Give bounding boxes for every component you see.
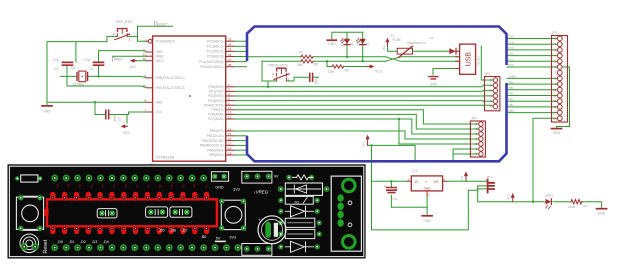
svg-text:27: 27 <box>228 58 232 62</box>
wire to IC2 VI <box>372 180 408 182</box>
svg-text:PD0(RXD): PD0(RXD) <box>208 85 223 89</box>
svg-text:LED1: LED1 <box>545 194 553 198</box>
svg-text:PB3: PB3 <box>509 92 515 96</box>
svg-text:GND: GND <box>215 186 224 190</box>
wire USB GND <box>433 69 460 75</box>
IC1 pin 19 PB5(SCK) <box>209 151 234 157</box>
wire JUMP net to JP3 pin 8 <box>507 77 557 79</box>
svg-text:RXLED: RXLED <box>356 37 360 46</box>
IC1 origin mark <box>189 95 191 97</box>
wire PD1 to JP1 pin 3 <box>234 90 493 93</box>
wire bus to JP3 pin 12 <box>507 100 557 102</box>
IC1 pin 17 PB3(MOSI/OC2) <box>200 142 234 148</box>
svg-text:1.5K: 1.5K <box>328 70 336 74</box>
svg-text:JP1: JP1 <box>485 72 491 76</box>
resistor R4 220R <box>568 200 588 210</box>
IC1 pin 6 PD4(XCK/T0) <box>204 102 234 108</box>
connector JP2 <box>470 117 485 157</box>
wire PC0 to bus <box>234 40 247 42</box>
PCB jumper block 3 <box>170 207 192 217</box>
svg-text:F+: F+ <box>55 184 60 189</box>
wire PC3 to bus <box>234 56 247 58</box>
PCB component rect 4 <box>278 229 322 238</box>
svg-text:GND: GND <box>598 212 606 216</box>
svg-text:PC2(ADC2): PC2(ADC2) <box>207 50 224 54</box>
svg-text:+5V: +5V <box>382 46 386 51</box>
svg-text:C3: C3 <box>118 117 122 121</box>
svg-text:PC1: PC1 <box>509 58 515 62</box>
wire PC1 to bus <box>234 45 247 47</box>
svg-text:PD4(XCK/T0): PD4(XCK/T0) <box>204 103 223 107</box>
IC1 pin 13 PD7(AIN1) <box>208 115 234 121</box>
wire +5V branch line <box>368 145 416 161</box>
svg-text:GND: GND <box>156 101 164 105</box>
wire VCC/LED1 line <box>478 189 602 208</box>
svg-text:PB0(ICP): PB0(ICP) <box>210 129 223 133</box>
wire PD7 branch to JP2 pin 5 <box>399 119 479 144</box>
PCB electrolytic capacitor <box>258 216 286 244</box>
wire bus to JP3 pin 14 <box>507 112 557 114</box>
svg-text:VCC: VCC <box>506 193 510 200</box>
IC1 pin 10 PB7(XTAL2/TOSC2) <box>143 84 185 90</box>
svg-text:D1: D1 <box>350 42 354 46</box>
wire RST_BTN left to GND rail <box>107 36 117 41</box>
svg-text:3+: 3+ <box>158 184 163 189</box>
wire AVCC to pin 20 <box>136 60 146 62</box>
svg-text:PB4: PB4 <box>509 86 515 90</box>
svg-text:26: 26 <box>228 53 232 57</box>
IC1 pin 23 PC0(ADC0) <box>207 38 234 44</box>
IC1 pin 18 PB4(MISO) <box>207 147 233 153</box>
svg-text:PB5(SCK): PB5(SCK) <box>209 153 224 157</box>
connector JP1 <box>485 72 500 111</box>
svg-text:4+: 4+ <box>78 184 83 189</box>
wire JP2 pin7 to bus bottom <box>453 149 479 161</box>
svg-text:+: + <box>384 184 386 188</box>
svg-text:10: 10 <box>143 84 147 88</box>
svg-text:PB0: PB0 <box>509 109 515 113</box>
svg-text:VCC: VCC <box>123 131 131 135</box>
svg-text:25: 25 <box>228 48 232 52</box>
PCB board silk outline <box>9 166 363 256</box>
PCB board substrate <box>8 164 366 258</box>
capacitor C3 100n <box>106 110 122 121</box>
svg-text:GND: GND <box>43 110 51 114</box>
PCB diode footprint 3 <box>278 241 320 252</box>
wire PD4 to JP1 pin 6 <box>234 105 493 106</box>
wire bus to JP3 pin 4 (PC2) <box>507 55 557 57</box>
VCC supply arrow at C3 <box>121 124 131 135</box>
svg-text:1+: 1+ <box>112 184 117 189</box>
junction C1/XTAL1 <box>97 75 99 77</box>
svg-text:PC0: PC0 <box>509 63 515 67</box>
svg-text:PB6(XTAL1/TOSC1): PB6(XTAL1/TOSC1) <box>156 76 185 80</box>
LED LED1 <box>545 194 553 209</box>
svg-text:3V3: 3V3 <box>460 175 464 181</box>
+5V supply arrow on power rail <box>361 135 369 147</box>
svg-text:GND: GND <box>553 131 561 135</box>
bus frame (blue rounded rectangle with gaps) <box>247 27 507 162</box>
wire PB4 to JP2 pin 7 <box>234 149 247 151</box>
svg-text:4+: 4+ <box>169 184 174 189</box>
ground at USB <box>429 77 438 87</box>
wire JP4 pins 2,3 <box>478 186 488 189</box>
wire PB0 to JP2 pin 4 <box>234 131 479 139</box>
VCC arrow at R3 <box>367 64 383 73</box>
wire C1 top to pin 22 GND <box>99 51 147 62</box>
wire IC2 VO to JP4 with 3V3 <box>447 180 488 182</box>
IC U1 ATMEGA body <box>153 36 226 161</box>
IC1 pin 8 GND <box>144 99 163 105</box>
svg-text:JP2: JP2 <box>471 117 477 121</box>
LED D2 (RX) <box>356 37 370 46</box>
PCB mounting hole with Reset label <box>20 234 49 254</box>
wire R3 branch <box>327 61 367 66</box>
wire LED rail <box>332 32 363 39</box>
IC1 pin 27 PC4(ADC4/SDA) <box>199 58 233 64</box>
svg-text:PD3(INT1): PD3(INT1) <box>208 99 223 103</box>
IC1 pin 15 PB1(OC1A) <box>207 132 234 138</box>
wire GND to IC1 pin 8 <box>47 101 147 103</box>
svg-text:21: 21 <box>143 53 147 57</box>
PCB top row pin labels (red) <box>55 184 209 189</box>
svg-text:PD5(T1): PD5(T1) <box>211 108 223 112</box>
capacitor C1 27p <box>85 58 104 71</box>
PCB jumper block 2 <box>146 207 168 217</box>
IC1 pin 1 PC6(/RESET) with inversion bubble <box>144 38 175 44</box>
svg-text:JP4: JP4 <box>487 175 493 179</box>
wire PD7 to JP2 pin 3 <box>234 119 479 134</box>
fuse F1 <box>391 34 413 57</box>
IC1 pin 5 PD3(INT1) <box>208 97 233 103</box>
svg-text:,D6: ,D6 <box>170 228 176 232</box>
svg-text:TXLED: TXLED <box>340 37 344 46</box>
wire +5V USB to fuse <box>388 46 460 52</box>
wire GND return rail <box>372 181 478 230</box>
svg-text:PC2: PC2 <box>509 52 515 56</box>
IC1 pin 4 PD2(INT0) <box>208 92 233 98</box>
svg-text:RST_BTN: RST_BTN <box>116 20 132 24</box>
PCB fuse/jumper silk top-right <box>286 175 314 180</box>
IC1 pin 20 AVCC <box>143 57 165 63</box>
wire PC5 to bus <box>234 66 247 68</box>
PCB DIP-28 footprint (red) <box>44 192 217 234</box>
svg-text:GND: GND <box>423 219 431 223</box>
svg-text:MBR0540-TP: MBR0540-TP <box>407 41 426 45</box>
PCB GND jumper pads top <box>211 172 228 190</box>
junction D2 <box>362 60 364 62</box>
svg-text:23: 23 <box>228 38 232 42</box>
svg-text:1+: 1+ <box>135 184 140 189</box>
svg-text:220R: 220R <box>568 205 576 209</box>
svg-text:VI: VI <box>415 180 418 184</box>
pushbutton PROG_BTN <box>268 63 290 81</box>
wire PB2 dead-end at bus <box>234 140 247 142</box>
svg-text:D3: D3 <box>430 36 434 40</box>
wire R2 elbow to PROG_BTN <box>262 61 276 81</box>
wire PD0 to JP1 pin 2 <box>234 85 493 87</box>
svg-text:2+: 2+ <box>146 184 151 189</box>
resistor R1 68K <box>298 50 314 67</box>
+5V USB supply arrow <box>382 38 390 51</box>
svg-text:R1: R1 <box>299 50 303 54</box>
svg-text:RESET: RESET <box>156 22 167 26</box>
wire JP3 pin 6 to GND elbow <box>557 67 570 128</box>
wire C1 lead <box>98 66 100 76</box>
svg-text:68K: 68K <box>298 63 305 67</box>
svg-text:PC1(ADC1): PC1(ADC1) <box>207 45 224 49</box>
svg-text:PC6(/RESET): PC6(/RESET) <box>156 40 176 44</box>
wire PD3 to JP1 pin 5 <box>234 100 493 103</box>
svg-text:JUMP: JUMP <box>509 75 517 79</box>
IC1 pin 16 PB2(SS/OC1B) <box>202 137 234 143</box>
svg-text:24: 24 <box>228 43 232 47</box>
svg-text:Q1: Q1 <box>71 66 76 70</box>
wire XTAL1 net (Q1 to pin 9) <box>60 76 146 77</box>
ground symbol left rail <box>42 106 52 114</box>
IC1 pin 2 PD0(RXD) <box>208 83 233 89</box>
wire VCC arrow stub at C3 <box>126 115 128 124</box>
svg-text:,D4: ,D4 <box>103 240 109 244</box>
junction PROG_BTN on PD0 <box>267 86 269 88</box>
svg-text:JP3: JP3 <box>552 31 558 35</box>
svg-text:GND: GND <box>328 42 336 46</box>
PCB component rect 3 <box>278 218 322 227</box>
svg-text:VCC: VCC <box>375 69 383 73</box>
ground at JP3 <box>552 129 562 136</box>
svg-text:2+: 2+ <box>100 184 105 189</box>
svg-text:PC0(ADC0): PC0(ADC0) <box>207 39 224 43</box>
IC1 pin 21 AREF <box>143 53 164 59</box>
svg-text:R4: R4 <box>584 204 588 208</box>
wire C4 leads <box>391 181 427 207</box>
wire PC4 to bus <box>234 61 247 63</box>
svg-text:100n: 100n <box>315 77 319 84</box>
diode D3 MBR0540-TP <box>407 36 456 54</box>
svg-text:PC3(ADC3): PC3(ADC3) <box>207 55 224 59</box>
ground at R4 <box>597 209 607 216</box>
3V3 supply arrow <box>460 171 468 181</box>
wire XTAL2 net (to pin 10) <box>67 86 147 88</box>
wire LED D2 leads <box>362 32 364 61</box>
svg-text:PB1(OC1A): PB1(OC1A) <box>207 134 224 138</box>
svg-text:+5V: +5V <box>361 142 365 147</box>
wire bus to JP3 pin 9 <box>507 83 557 85</box>
PCB pushbutton right (prog) <box>219 199 246 231</box>
connector JP3 <box>552 31 568 122</box>
wire C3 left to GND net <box>95 102 105 114</box>
wire R2 line <box>262 60 386 62</box>
svg-text:,D1: ,D1 <box>69 240 75 244</box>
svg-text:+: + <box>258 218 261 223</box>
wire PROG_BTN left drop to PD0 <box>267 81 269 87</box>
PCB R3 footprint <box>278 196 320 204</box>
svg-text:,D3: ,D3 <box>92 240 98 244</box>
svg-text:PB5: PB5 <box>509 80 515 84</box>
junction C3/GND <box>94 101 96 103</box>
node AREF label <box>113 57 123 62</box>
svg-text:15: 15 <box>228 132 232 136</box>
svg-text:11: 11 <box>228 106 231 110</box>
svg-text:5+: 5+ <box>66 184 71 189</box>
resistor R2 <box>301 60 318 67</box>
IC1 pin 25 PC2(ADC2) <box>207 48 234 54</box>
svg-text:27p: 27p <box>85 58 91 62</box>
IC1 pin 9 PB6(XTAL1/TOSC1) <box>144 74 184 80</box>
wire PROG_BTN right to C6 <box>286 77 318 81</box>
IC1 pin 3 PD1(TXD) <box>209 88 234 94</box>
svg-text:GND: GND <box>424 186 432 190</box>
wire bus to JP3 pin 6 (PC0) <box>507 66 557 68</box>
USB connector X1 <box>456 44 476 74</box>
svg-text:,B0: ,B0 <box>201 235 207 239</box>
wire PC2 to bus <box>234 50 247 52</box>
wire RESET net label stub <box>138 25 173 27</box>
svg-text:14: 14 <box>228 127 232 131</box>
PCB bottom row labels <box>57 188 240 245</box>
capacitor C6 100n (auto-reset) <box>310 73 319 84</box>
svg-text:PB2: PB2 <box>509 97 515 101</box>
node RESET label <box>155 22 167 26</box>
PCB resistor footprint top-left <box>15 175 42 182</box>
svg-text:17: 17 <box>228 142 232 146</box>
crystal Q1 16 MHz <box>71 66 88 87</box>
svg-text:5V: 5V <box>216 237 221 241</box>
svg-text:6+: 6+ <box>192 184 197 189</box>
wire PD6 to JP2 pin 2 <box>234 114 479 129</box>
svg-text:C1: C1 <box>89 67 93 71</box>
svg-text:PC5: PC5 <box>509 35 515 39</box>
svg-text:PC4(ADC4/SDA): PC4(ADC4/SDA) <box>199 60 223 64</box>
svg-text:27p: 27p <box>53 58 59 62</box>
svg-text:5+: 5+ <box>181 184 186 189</box>
VCC arrow at LED1 line <box>506 193 514 202</box>
svg-text:R2: R2 <box>314 62 318 66</box>
VCC supply arrow at AVCC <box>129 59 137 69</box>
wire bus to JP3 pin 11 <box>507 95 557 97</box>
wire GND rail top-left <box>47 42 107 106</box>
svg-text:18: 18 <box>228 147 232 151</box>
PCB reset pushbutton top-left <box>16 195 43 231</box>
svg-text:Reset: Reset <box>43 239 49 253</box>
svg-text:PD1(TXD): PD1(TXD) <box>209 90 224 94</box>
svg-text:3+: 3+ <box>89 184 94 189</box>
wire JP3 pin 15 to LED1 net <box>533 118 557 201</box>
wire PB1 dead-end at bus <box>234 135 247 137</box>
svg-text:,D5: ,D5 <box>159 228 165 232</box>
svg-text:12: 12 <box>228 111 232 115</box>
PCB diode footprint 2 <box>278 206 320 217</box>
PCB diode D1 footprint <box>278 183 330 195</box>
svg-text:FUSE: FUSE <box>393 38 402 42</box>
wire LED D1 leads <box>346 32 348 57</box>
svg-text:C2: C2 <box>54 67 58 71</box>
svg-text:PB7(XTAL2/TOSC2): PB7(XTAL2/TOSC2) <box>156 86 185 90</box>
svg-text:PC5(ADC5/SCL): PC5(ADC5/SCL) <box>200 65 224 69</box>
svg-text:PROG_BTN: PROG_BTN <box>268 63 288 67</box>
svg-text:↓VREG: ↓VREG <box>254 190 269 195</box>
PCB board image <box>8 164 366 258</box>
pushbutton RST_BTN <box>113 20 132 41</box>
svg-text:PB4(MISO): PB4(MISO) <box>207 148 223 152</box>
svg-text:VO: VO <box>434 180 439 184</box>
wire RESET to JP1 pin 1 <box>481 46 493 80</box>
IC1 pin 26 PC3(ADC3) <box>207 53 234 59</box>
junction JP4 drop <box>477 201 479 203</box>
svg-text:100n: 100n <box>113 114 117 121</box>
voltage regulator IC2 <box>407 169 447 197</box>
svg-text:PB2(SS/OC1B): PB2(SS/OC1B) <box>202 139 224 143</box>
wire C3 right to pin 7 VCC <box>110 112 147 115</box>
junction D1 <box>346 56 348 58</box>
svg-text:C4: C4 <box>393 187 397 191</box>
wire bus to JP3 pin 5 (PC1) <box>507 60 557 62</box>
junction +5V to regulator <box>370 144 372 146</box>
svg-text:16 MHz: 16 MHz <box>73 83 85 87</box>
svg-text:28: 28 <box>228 63 232 67</box>
svg-text:IC2: IC2 <box>413 169 418 173</box>
IC1 pin 24 PC1(ADC1) <box>207 43 234 49</box>
PCB top pad row <box>51 175 207 182</box>
svg-text:,D0: ,D0 <box>57 240 63 244</box>
PCB DC jack block <box>331 176 361 251</box>
wire RST_BTN right to RESET <box>127 26 147 41</box>
svg-text:PB3(MOSI/OC2): PB3(MOSI/OC2) <box>200 144 224 148</box>
svg-text:7+: 7+ <box>204 184 209 189</box>
ground at LED rail <box>327 40 336 46</box>
resistor R3 1.5K <box>328 65 349 74</box>
svg-text:9V: 9V <box>274 175 279 179</box>
wire bus to JP3 pin 13 <box>507 106 557 108</box>
svg-text:D2: D2 <box>366 42 370 46</box>
ground at IC2 <box>422 216 432 223</box>
wire +5V rail down to IC2 <box>371 145 373 181</box>
capacitor C2 27p <box>53 58 72 71</box>
IC1 pin 11 PD5(T1) <box>211 106 233 112</box>
svg-text:20: 20 <box>143 57 147 61</box>
svg-text:AREF: AREF <box>114 58 123 62</box>
wire bus to JP3 pin 2 (PC4) <box>507 43 557 45</box>
LED D1 (TX) <box>340 37 354 46</box>
wire bus to JP3 pin 3 (PC3) <box>507 49 557 51</box>
junction R3 tap <box>326 60 328 62</box>
IC1 pin 7 VCC <box>144 108 163 114</box>
svg-text:RESET: RESET <box>477 55 481 65</box>
connector JP4 <box>487 175 495 193</box>
wire C2 lead to XTAL2 <box>66 66 68 86</box>
svg-text:,D2: ,D2 <box>80 240 86 244</box>
wire IC2 GND to ground <box>426 196 428 215</box>
svg-text:PC4: PC4 <box>509 40 515 44</box>
PCB bottom-left power pads box <box>242 244 272 256</box>
svg-text:13: 13 <box>228 115 232 119</box>
svg-text:PD2(INT0): PD2(INT0) <box>208 94 223 98</box>
svg-text:16: 16 <box>228 137 232 141</box>
svg-text:19: 19 <box>228 151 232 155</box>
svg-text:R3: R3 <box>295 200 300 204</box>
capacitor C4 4.7u polarized <box>384 184 397 201</box>
wire PB5 dead-end <box>234 154 247 156</box>
svg-text:VCC: VCC <box>156 110 163 114</box>
PCB jumper block 1 <box>97 209 117 218</box>
wire PD2 to JP1 pin 4 <box>234 95 493 97</box>
wire bus to JP3 pin 10 <box>507 89 557 91</box>
svg-text:,D7: ,D7 <box>182 228 188 232</box>
svg-text:USB: USB <box>466 52 473 67</box>
svg-text:PD6(AIN0): PD6(AIN0) <box>208 113 223 117</box>
wire PB3 to JP2 pin 6 with +5V tap <box>234 144 247 146</box>
svg-text:PB1: PB1 <box>509 103 515 107</box>
